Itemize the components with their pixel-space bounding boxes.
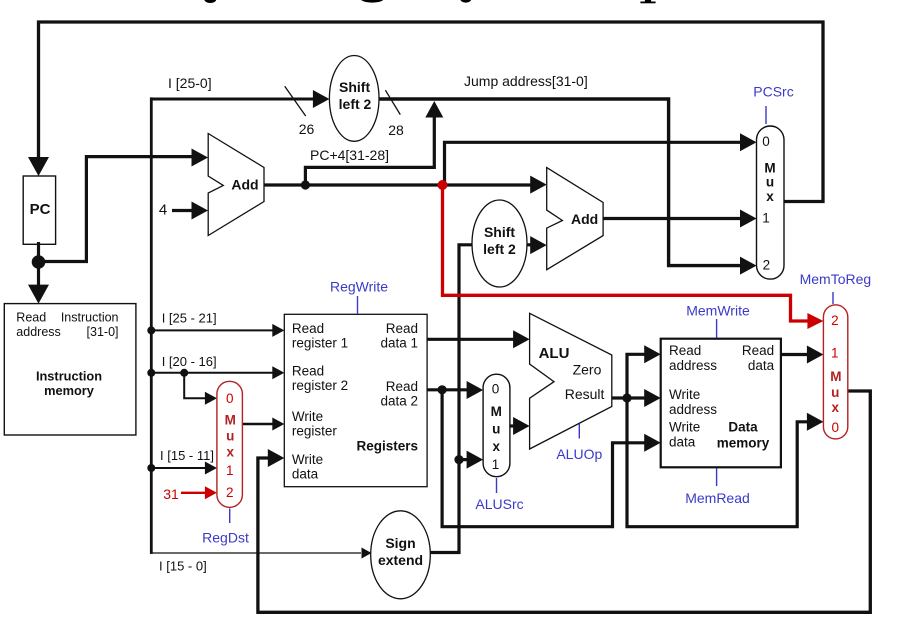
arrowhead into PCSrc mux input 1 [740,210,757,228]
arrowhead into branch Add bottom input [530,236,547,254]
shift left 2 (branch) [472,200,527,287]
svg-text:left 2: left 2 [483,241,516,257]
svg-text:Write: Write [669,387,700,402]
arrowhead into ALU top input [513,330,530,348]
ALU [530,313,612,449]
svg-text:Write: Write [292,452,323,467]
svg-text:memory: memory [717,436,770,451]
junction I[20-16] branch to RegDst mux [180,369,188,377]
svg-text:I [20 - 16]: I [20 - 16] [162,354,217,369]
mux MemToReg [823,305,847,439]
wire constant 31 to RegDst mux input 2 [181,492,206,494]
svg-text:Sign: Sign [385,535,415,551]
wire read data to MemToReg mux input 1 [781,353,812,356]
arrowhead into branch Add top input [530,176,547,194]
svg-text:extend: extend [378,552,423,568]
mux RegDst [217,381,243,507]
wire PC to Add (PC+4) top input [39,157,196,262]
arrowhead into read register 2 [272,366,284,379]
tick ALUSrc [496,478,498,493]
svg-text:register 1: register 1 [292,335,348,350]
svg-text:x: x [766,189,774,204]
svg-text:Shift: Shift [484,224,515,240]
arrowhead into data memory read address [644,345,661,363]
wire PC output down to instruction memory [37,242,40,292]
svg-text:Read: Read [292,364,324,379]
svg-text:PCSrc: PCSrc [753,84,793,100]
svg-text:address: address [669,402,717,417]
svg-text:Read: Read [292,321,324,336]
arrowhead into shift left 2 [313,90,330,108]
svg-text:0: 0 [762,134,770,149]
arrowhead into RegDst mux input 1 [205,462,217,475]
bus width slash 28 [385,90,400,114]
wire PCSrc mux output feedback to PC (top) [39,22,824,202]
arrowhead into ALUSrc mux input 1 [467,451,484,469]
svg-text:data: data [669,435,696,450]
svg-text:x: x [832,400,840,415]
svg-text:Instruction: Instruction [36,369,102,384]
svg-text:Data: Data [728,420,758,435]
arrowhead into RegDst mux input 0 [205,392,217,405]
wire ALU result up to data memory read address [627,354,649,398]
wire PC+4[31-28] up to jump address line [305,112,434,185]
svg-text:Write: Write [292,409,323,424]
title fragment descender 2 [361,0,384,3]
wire jump address[31-0] to PCSrc mux input 2 [379,99,747,266]
wire constant 4 to Add [172,209,197,212]
wire I[25-0] to shift left 2 [151,98,318,101]
mux PCSrc [757,126,785,279]
wire shift left 2 to branch Add [527,243,536,246]
arrowhead into PC top [28,157,49,176]
svg-text:I [25 - 21]: I [25 - 21] [162,311,217,326]
junction I[15-11] tap [147,464,155,472]
tick RegWrite [357,296,359,314]
svg-text:2: 2 [763,258,771,273]
adder Add (PC+4) [208,134,264,236]
tick PCSrc [765,106,767,124]
arrowhead up into jump address line [425,101,443,118]
svg-text:memory: memory [44,383,95,398]
svg-text:2: 2 [226,485,234,500]
mux ALUSrc [483,374,510,477]
svg-text:x: x [226,444,234,459]
adder Add (branch) [547,168,603,270]
arrowhead into PCSrc mux input 2 [740,257,757,275]
svg-text:28: 28 [388,122,404,138]
wire ALU result to data memory write address [612,396,649,399]
svg-text:Jump address[31-0]: Jump address[31-0] [464,73,588,89]
svg-text:data: data [748,358,775,373]
wire instruction bus vertical [150,97,153,554]
svg-text:u: u [831,385,839,400]
wire sign extend output up to shift left 2 [430,245,472,553]
svg-text:Read: Read [669,343,701,358]
svg-text:1: 1 [762,210,770,225]
title fragment descender 3 [460,0,471,3]
junction sign extend to ALUSrc mux [454,455,463,464]
wire ALUSrc mux output to ALU [510,424,518,427]
svg-text:RegWrite: RegWrite [330,279,388,295]
tick MemToReg [832,292,834,304]
svg-text:Instruction: Instruction [61,311,119,325]
svg-text:address: address [16,325,60,339]
junction PC output [32,255,46,269]
svg-text:Result: Result [565,386,605,402]
wire PC+4 from Add output to branch Add [264,183,536,186]
wire to ALUSrc mux input 1 [459,458,472,461]
register PC box [23,176,55,244]
junction ALU result [622,393,631,402]
svg-text:Add: Add [231,177,258,193]
svg-text:Zero: Zero [573,362,602,378]
svg-text:Read: Read [386,379,418,394]
wire branch Add output to PCSrc mux input 1 [603,217,747,220]
wire I[15-0] to sign extend [151,552,361,554]
svg-text:M: M [491,404,502,419]
svg-text:4: 4 [159,202,167,219]
bus width slash 26 [285,86,306,116]
wire read data 2 to ALUSrc mux input 0 [427,388,472,391]
arrowhead into Add top input [192,149,209,167]
svg-text:PC+4[31-28]: PC+4[31-28] [310,147,389,163]
svg-text:2: 2 [831,313,839,328]
wire read data 1 to ALU [427,338,518,341]
svg-text:register 2: register 2 [292,378,348,393]
svg-text:ALUOp: ALUOp [556,446,602,462]
svg-text:M: M [225,413,236,428]
red arrowhead into RegDst mux input 2 [205,486,217,499]
svg-text:1: 1 [226,463,234,478]
svg-text:Read: Read [386,321,418,336]
svg-text:I [15 - 11]: I [15 - 11] [160,448,214,463]
arrowhead into registers write data [268,449,285,467]
wire read data 2 down to data memory write data [442,390,649,527]
arrowhead into instruction memory read address [28,285,49,304]
wire I[25-21] to read register 1 [151,329,273,331]
tick MemRead [716,469,718,487]
svg-text:0: 0 [226,391,234,406]
arrowhead into PCSrc mux input 0 [740,133,757,151]
arrowhead into MemToReg mux input 0 [807,413,824,431]
junction I[20-16] tap [147,369,155,377]
arrowhead into data memory write data [644,434,661,452]
sign extend [371,511,431,599]
svg-text:PC: PC [30,201,51,218]
svg-text:address: address [669,358,717,373]
svg-text:MemWrite: MemWrite [686,303,750,319]
registers box [284,314,427,486]
svg-text:Read: Read [16,311,46,325]
svg-text:data 2: data 2 [380,393,418,408]
arrowhead into MemToReg mux input 1 [807,346,824,364]
svg-text:MemToReg: MemToReg [800,271,872,287]
red junction PC+4 jal tap [438,180,448,190]
svg-text:Registers: Registers [356,439,418,454]
wire ALU result bypass to MemToReg mux input 0 [627,398,812,527]
svg-text:1: 1 [831,345,839,360]
svg-text:data 1: data 1 [380,335,418,350]
svg-text:left 2: left 2 [339,96,372,112]
svg-text:1: 1 [492,457,500,472]
svg-text:ALUSrc: ALUSrc [475,496,523,512]
svg-text:31: 31 [163,486,179,502]
arrowhead into ALU bottom input [513,417,530,435]
red wire PC+4 (jal) to MemToReg mux input 2 [443,185,811,321]
svg-text:I [15 - 0]: I [15 - 0] [159,559,207,574]
title fragment descender 4 [645,0,651,2]
junction PC+4 tap for jump concat [301,180,310,189]
title fragment descender 1 [204,0,216,3]
svg-text:Write: Write [669,420,700,435]
data memory box [661,339,781,468]
svg-text:M: M [764,161,775,176]
wire PC+4 to PCSrc mux input 0 [445,142,748,185]
svg-text:u: u [226,429,234,444]
red arrowhead into MemToReg mux input 2 [807,313,823,329]
svg-text:u: u [492,422,500,437]
svg-text:M: M [830,369,841,384]
svg-text:0: 0 [492,381,500,396]
junction I[25-21] tap [147,326,155,334]
svg-text:MemRead: MemRead [685,490,750,506]
svg-text:[31-0]: [31-0] [87,325,119,339]
arrowhead into ALUSrc mux input 0 [467,381,484,399]
tick ALUOp [578,424,580,439]
svg-text:data: data [292,466,319,481]
arrowhead into write register [272,418,284,431]
wire I[20-16] down to RegDst mux input 0 [184,373,206,399]
svg-text:u: u [766,175,774,190]
wire RegDst mux output to write register [242,423,273,426]
wire I[15-11] to RegDst mux input 1 [151,467,206,469]
wire I[20-16] to read register 2 [151,372,273,374]
svg-text:Shift: Shift [339,79,370,95]
instruction memory box [4,304,136,435]
arrowhead into Add bottom input [192,202,209,220]
svg-text:RegDst: RegDst [202,530,249,546]
svg-text:Read: Read [742,343,774,358]
tick MemWrite [716,319,718,338]
svg-text:ALU: ALU [539,345,570,362]
svg-text:26: 26 [299,121,315,137]
svg-text:0: 0 [832,420,840,435]
svg-text:register: register [292,423,338,438]
junction read data 2 branch [438,385,447,394]
tick RegDst [229,509,231,524]
svg-text:I [25-0]: I [25-0] [168,75,212,91]
arrowhead into read register 1 [272,324,284,337]
svg-text:Add: Add [571,211,598,227]
shift left 2 (jump) [329,56,379,142]
wire MemToReg mux output writeback to write data [258,391,870,612]
svg-text:x: x [492,439,500,454]
arrowhead into data memory write address [644,389,661,407]
arrowhead into sign extend [362,548,372,559]
